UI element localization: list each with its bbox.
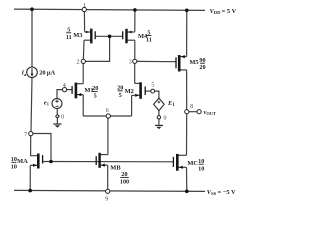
wire Ia bottom to node7 [31,78,32,132]
wire node7 right then down to bias line [33,134,51,162]
svg-text:M3: M3 [73,32,82,39]
current source Ia circle [27,67,38,78]
svg-text:20: 20 [121,171,127,178]
svg-text:10: 10 [198,165,204,172]
wire tail node6 horizontal [83,115,131,117]
dependent source Eb diamond with polarity [154,98,165,111]
junction dot top rail M5 [185,9,189,13]
node 7 circle [29,132,33,136]
wire MC source down to rail [186,167,188,191]
wire bottom VSS rail [14,190,205,191]
junction dot bottom rail MC [185,190,189,194]
wire node 0 to left ground [56,118,58,124]
node 4 circle [63,88,67,92]
transistor M5 channel and gate bars [176,55,179,72]
transistor M1 source arrow [77,93,81,96]
wire M3 gate to M4 gate [95,35,122,37]
wire rail to Ia top [31,9,33,67]
wire node4 to e1 source [57,90,63,99]
wire M4 source up to rail [134,10,136,31]
transistor M2 leads [146,90,152,92]
node 6 circle [106,114,110,118]
node 2 circle [81,59,85,63]
wire M1 source down to tail [82,95,84,116]
wire M3 drain down to node2 [82,40,85,59]
wire node7 down to MA drain [31,136,38,156]
svg-text:0: 0 [61,115,64,121]
transistor MB channel and gate bars [96,153,99,168]
junction dot bottom rail MA [28,189,32,193]
wire bias line MA gate to MB gate to MC gate [43,161,173,163]
node 0 diamond left [56,114,60,118]
wire MB source down to node9 [107,165,109,189]
node 0 circle right [157,116,160,119]
svg-text:5: 5 [94,92,97,99]
svg-text:7: 7 [24,132,27,138]
transistor M1 channel and gate bars [72,83,76,99]
transistor M4 channel and gate bars [123,29,127,44]
transistor M2 source arrow [135,94,139,97]
transistor M4 leads [127,31,135,33]
transistor M1 leads [67,89,72,91]
current source Ia arrow [31,68,33,75]
svg-text:5: 5 [119,92,122,99]
svg-text:20: 20 [199,64,205,71]
svg-text:5: 5 [151,83,154,89]
svg-text:20 μA: 20 μA [39,70,55,77]
wire M4 drain down to node3 [134,40,136,59]
svg-text:M2: M2 [125,88,134,95]
transistor M3 channel and gate bars [91,29,95,44]
transistor M2 channel and gate bars [141,82,146,99]
wire e1 bottom to node 0 [56,109,58,115]
voltage source e1 circle with polarity [52,99,62,109]
svg-text:0: 0 [164,116,167,122]
transistor M3 leads [85,31,91,33]
svg-text:100: 100 [120,178,129,185]
ground below Eb [155,124,163,126]
wire M2 source down to tail [131,95,133,116]
wire M5 drain down to node8 [186,70,188,110]
junction dot bias line MA [49,160,53,164]
node 8 circle [185,110,189,114]
transistor MC channel and gate bars [173,154,177,171]
svg-text:3: 3 [129,59,132,65]
node 5 circle [151,89,155,93]
node 3 circle [133,59,137,63]
svg-text:MB: MB [110,164,121,171]
svg-text:vOUT: vOUT [204,109,216,116]
node 1 circle [82,7,86,11]
svg-text:2: 2 [77,59,80,65]
svg-text:4: 4 [63,83,66,89]
transistor MC leads [178,154,186,156]
wire Eb bottom to node 0 [158,111,160,116]
svg-text:M5: M5 [189,59,198,66]
svg-text:9: 9 [105,196,108,202]
wire node3 down to M2 drain [134,63,136,83]
transistor M4 source arrow [129,31,132,34]
transistor MB source arrow [101,164,105,167]
wire node8 to vout terminal [189,111,197,113]
transistor M5 leads [180,56,186,58]
transistor M5 source arrow [181,55,185,58]
wire node 0 to right ground [158,119,160,125]
svg-text:1: 1 [83,3,86,9]
wire node8 down to MC drain [186,114,188,156]
node 9 circle [106,189,110,193]
svg-text:11: 11 [146,36,152,43]
vout terminal circle [197,110,201,114]
wire node6 down to MB drain [107,118,109,155]
transistor MA channel and gate bars [38,154,42,169]
svg-text:10: 10 [11,163,17,170]
wire node5 right and down to Eb [154,91,159,98]
junction dot top rail left branch [30,7,34,11]
junction dot top rail M4 [133,8,137,12]
wire top VDD rail [14,9,205,10]
svg-text:e1: e1 [44,100,49,107]
transistor MA leads [30,164,37,166]
svg-text:6: 6 [106,108,109,114]
ground below e1 [53,123,61,125]
wire node2 down to M1 drain [82,63,84,83]
transistor MA source arrow [33,164,37,167]
transistor MB leads [100,154,108,156]
transistor M3 source arrow [86,31,89,34]
wire MA source down to rail [29,165,31,190]
transistor MC source arrow [179,166,183,169]
svg-text:MC: MC [187,160,198,167]
svg-text:VDD = 5 V: VDD = 5 V [210,8,237,15]
wire node2 right to mirror gate drop [85,60,110,62]
svg-text:11: 11 [66,34,72,41]
wire mirror gate vertical drop [109,36,111,62]
junction dot mirror gate tee [108,35,112,39]
wire node1 down to M3 source [83,11,85,31]
wire M5 source up to rail [186,10,188,56]
wire node3 right to M5 gate [137,60,176,62]
svg-text:8: 8 [190,104,193,110]
svg-text:MA: MA [17,158,28,165]
